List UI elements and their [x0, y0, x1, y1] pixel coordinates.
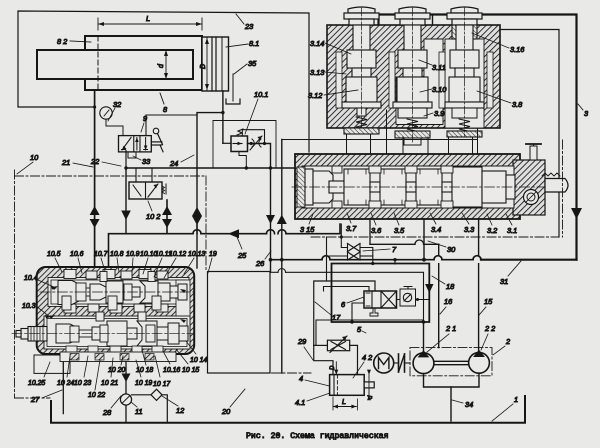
- svg-text:11: 11: [135, 407, 143, 416]
- svg-text:L: L: [146, 14, 150, 23]
- svg-text:10.8: 10.8: [110, 251, 124, 258]
- drain slots in block 3: [336, 52, 493, 108]
- label 16: [440, 297, 453, 314]
- svg-text:12: 12: [176, 406, 184, 415]
- label 2.1: [427, 324, 456, 352]
- label 3.8: [477, 91, 523, 109]
- label 34: [452, 400, 473, 409]
- coupling: [394, 354, 410, 372]
- valve 6: [364, 291, 397, 316]
- label 10.15: [176, 349, 199, 374]
- svg-text:3: 3: [584, 109, 589, 118]
- label 3.15: [300, 214, 315, 234]
- distributor spool lands: [297, 167, 515, 207]
- svg-text:2: 2: [505, 337, 510, 346]
- label 2: [493, 337, 510, 355]
- upper bore block 10: [48, 278, 190, 346]
- svg-text:3.7: 3.7: [346, 224, 357, 233]
- svg-text:3.13: 3.13: [310, 68, 325, 77]
- svg-text:4 2: 4 2: [362, 353, 372, 362]
- check valve 11: [120, 394, 131, 423]
- flow arrows on wire 167: [162, 206, 172, 228]
- svg-text:26: 26: [255, 259, 265, 268]
- label 3.3: [462, 213, 475, 234]
- distributor 3 body: [295, 154, 545, 219]
- label 4.1: [295, 393, 330, 407]
- svg-text:18: 18: [446, 282, 455, 291]
- svg-text:16: 16: [444, 297, 453, 306]
- label 12: [162, 396, 184, 415]
- label 10.16: [163, 351, 180, 374]
- pump 2.2: [469, 350, 490, 373]
- label 29: [297, 337, 313, 360]
- wire return manifold y259.7: [269, 256, 577, 262]
- label 10.22: [88, 360, 105, 399]
- svg-text:3.11: 3.11: [432, 63, 446, 72]
- svg-text:Рис. 20. Схема гидравлическая: Рис. 20. Схема гидравлическая: [246, 432, 389, 441]
- pump 2.1: [413, 350, 434, 373]
- splined input shaft 10.4: [16, 327, 47, 342]
- svg-text:10 2: 10 2: [146, 212, 160, 221]
- wire throttle to cylinder 4: [314, 345, 358, 374]
- wire 10.1 inlet: [223, 142, 231, 144]
- svg-text:10.25: 10.25: [28, 380, 45, 387]
- label 10.13: [184, 251, 205, 274]
- svg-text:10.4: 10.4: [24, 275, 38, 282]
- filter 12: [151, 389, 162, 400]
- throttle 5: [327, 336, 349, 353]
- relief 10.1 bypass loop: [242, 130, 266, 145]
- svg-text:7: 7: [392, 245, 397, 254]
- wires valves to distributor: [347, 110, 478, 154]
- chain boundary assembly 10: [15, 170, 207, 398]
- label 23: [236, 14, 254, 31]
- gauge 32: [100, 107, 123, 136]
- label 10.6: [70, 251, 84, 273]
- svg-text:3.16: 3.16: [510, 45, 525, 54]
- label 1: [492, 395, 518, 421]
- svg-text:20: 20: [221, 407, 231, 416]
- label 10.9: [126, 251, 140, 273]
- wire inner frame right: [500, 30, 559, 238]
- wire 3 top feed: [379, 15, 577, 260]
- svg-text:10 23: 10 23: [74, 380, 91, 387]
- label 25: [237, 237, 247, 260]
- label 3.16: [472, 33, 525, 54]
- label 10.24: [57, 356, 74, 387]
- svg-text:3.5: 3.5: [394, 226, 405, 235]
- wire return line y233.7: [109, 224, 341, 268]
- wire spool port to junction 424: [423, 219, 425, 260]
- svg-text:10.1: 10.1: [254, 90, 268, 99]
- svg-text:10.16: 10.16: [163, 367, 180, 374]
- label 3.13: [310, 68, 346, 77]
- svg-text:10 20: 10 20: [108, 367, 125, 374]
- label 21: [61, 158, 93, 167]
- coupler 7 upper branch: [340, 224, 373, 264]
- svg-text:8.1: 8.1: [249, 39, 259, 48]
- poppet valve 3.9 cartridge 2: [393, 7, 432, 145]
- svg-text:19: 19: [209, 251, 217, 258]
- label 8.1: [226, 39, 259, 48]
- label 10.7: [94, 251, 109, 271]
- svg-text:10.9: 10.9: [126, 251, 140, 258]
- label 8: [160, 93, 168, 114]
- label 10: [17, 153, 39, 174]
- lower bore block 10: [44, 316, 190, 353]
- label 3.6: [371, 213, 382, 235]
- svg-text:D: D: [200, 64, 207, 69]
- svg-text:32: 32: [113, 100, 121, 109]
- distributor seat plugs: [332, 166, 453, 208]
- wire 10.2 to return: [166, 200, 168, 234]
- coupler 7 lower branch: [327, 237, 373, 281]
- label 28: [102, 396, 121, 417]
- svg-text:22: 22: [90, 157, 99, 166]
- wire 281 return riser: [277, 140, 478, 374]
- svg-text:33: 33: [142, 157, 151, 166]
- svg-text:25: 25: [237, 251, 247, 260]
- label 10.19: [135, 360, 152, 387]
- caption: [246, 432, 389, 441]
- svg-text:30: 30: [447, 245, 456, 254]
- svg-text:10: 10: [30, 153, 39, 162]
- valve 10.2: [129, 168, 166, 199]
- svg-text:10 22: 10 22: [88, 392, 105, 399]
- label 10.8: [110, 251, 124, 272]
- svg-text:10 24: 10 24: [57, 380, 74, 387]
- label 27: [30, 390, 62, 404]
- flow arrow on return line: [228, 229, 239, 238]
- tank symbol below valve 9: [126, 151, 136, 169]
- wire node A main pressure line y168: [124, 166, 295, 169]
- label 3.10: [420, 85, 447, 94]
- label 3.11: [419, 60, 446, 72]
- drain loop 10.1: [239, 152, 246, 169]
- label 10.1: [245, 90, 268, 134]
- poppet valve 3.12 cartridge 1: [342, 7, 381, 134]
- wire cylinder right port: [197, 91, 225, 234]
- wire check valve 11 branch: [122, 354, 131, 394]
- throttle next to 10.1: [249, 136, 264, 150]
- svg-text:1: 1: [514, 395, 518, 404]
- block bottom plate: [60, 352, 176, 362]
- label 10.14: [186, 341, 207, 364]
- wire filter 12 branch: [132, 395, 168, 423]
- svg-text:10 18: 10 18: [136, 367, 153, 374]
- label 7: [363, 245, 397, 254]
- svg-text:3.14: 3.14: [310, 39, 324, 48]
- upper spool block 10: [58, 281, 187, 305]
- label 4: [299, 374, 330, 386]
- svg-text:5: 5: [357, 325, 362, 334]
- svg-text:10.12: 10.12: [169, 251, 186, 258]
- wire pump 2.1 suction riser: [423, 322, 425, 353]
- svg-text:2 2: 2 2: [484, 324, 495, 333]
- svg-text:3.8: 3.8: [512, 100, 523, 109]
- label 3.9: [424, 109, 444, 118]
- svg-text:24: 24: [169, 159, 178, 168]
- label 10.17: [153, 356, 171, 388]
- svg-text:28: 28: [102, 408, 112, 417]
- label 33: [133, 156, 151, 166]
- label 10.21: [101, 358, 118, 387]
- label 10.3: [22, 303, 50, 319]
- lower spool block 10: [56, 321, 188, 346]
- svg-text:L: L: [342, 399, 346, 406]
- dimension d: [158, 50, 168, 79]
- svg-text:23: 23: [244, 22, 254, 31]
- svg-text:10.5: 10.5: [47, 251, 61, 258]
- svg-text:9: 9: [143, 114, 147, 123]
- motor M: [374, 353, 394, 373]
- label 4.2: [353, 353, 372, 378]
- svg-text:15: 15: [484, 297, 493, 306]
- svg-text:34: 34: [465, 400, 473, 409]
- label 31: [500, 261, 521, 286]
- chain boundary bottom: [208, 372, 312, 374]
- tank 1 outline: [51, 396, 525, 423]
- svg-text:3.3: 3.3: [464, 225, 475, 234]
- distributor centerline: [292, 186, 548, 188]
- wire 10.1 outlet down: [248, 144, 271, 272]
- cylinder 8: [37, 36, 229, 91]
- label 22: [90, 157, 121, 166]
- label 32: [108, 100, 121, 121]
- label 9: [141, 114, 147, 132]
- label 26: [255, 251, 271, 268]
- flow arrow on wire 3: [571, 208, 582, 219]
- upper spool centerline: [40, 291, 193, 293]
- box 19: [208, 272, 271, 374]
- svg-text:3.6: 3.6: [371, 226, 382, 235]
- dimension L cylinder 4: [333, 397, 358, 410]
- internal leader arrows block 10: [49, 286, 186, 323]
- valve 9: [119, 128, 164, 152]
- svg-text:10 17: 10 17: [153, 381, 171, 388]
- svg-text:3.1: 3.1: [507, 226, 517, 235]
- label 10.5: [47, 251, 62, 272]
- svg-text:3 15: 3 15: [300, 225, 315, 234]
- svg-text:10.7: 10.7: [94, 251, 109, 258]
- svg-text:21: 21: [61, 158, 70, 167]
- cylinder 4: [330, 375, 375, 396]
- label 2.2: [481, 324, 495, 350]
- chain boundary pump assembly 2: [410, 348, 492, 376]
- label 10.25: [28, 362, 50, 387]
- wire 23 frame top-left: [18, 11, 309, 152]
- dimension D cylinder 4: [330, 362, 338, 375]
- wire distributor port 3.6 to pump line: [370, 219, 439, 244]
- flow arrow on wire 270: [266, 215, 275, 224]
- label 17: [315, 302, 341, 322]
- wire 27 drain: [62, 354, 64, 414]
- distributor adjuster bolt: [526, 144, 541, 160]
- distributor output shaft: [542, 173, 568, 192]
- label 3.12: [308, 90, 358, 100]
- wire valve 6 left loop: [352, 303, 364, 322]
- svg-text:3.9: 3.9: [434, 109, 444, 118]
- upper port notches: [64, 270, 168, 314]
- label 11: [131, 402, 143, 416]
- label 10.2: [146, 201, 160, 221]
- wire cylinder left port: [94, 90, 96, 268]
- svg-text:31: 31: [500, 277, 508, 286]
- svg-text:10.3: 10.3: [22, 303, 36, 310]
- svg-text:8: 8: [163, 105, 168, 114]
- label 8.2: [57, 37, 91, 46]
- label 3.1: [506, 214, 517, 235]
- valve block assembly 3 body: [327, 25, 500, 128]
- label 3.5: [394, 213, 405, 235]
- wire valve 9 right port: [146, 115, 197, 136]
- pump shaft: [434, 361, 469, 364]
- label 3: [578, 104, 589, 118]
- dimension L: [98, 14, 202, 30]
- box 16 inner boundary: [271, 258, 424, 345]
- svg-text:3.10: 3.10: [432, 85, 447, 94]
- label 10.23: [74, 356, 91, 387]
- svg-text:4.1: 4.1: [295, 398, 305, 407]
- dimension d cylinder 4: [367, 370, 374, 401]
- wire pump suction manifold 34: [424, 373, 480, 421]
- label 10.18: [136, 350, 153, 374]
- label 3.7: [346, 213, 357, 233]
- flow arrows on wire 197: [192, 207, 202, 268]
- svg-text:29: 29: [297, 337, 306, 346]
- relief valve 10.1 enclosure: [213, 121, 276, 169]
- pump block assembly 10 body: [37, 267, 195, 354]
- label 10.11: [154, 251, 172, 277]
- svg-text:D: D: [330, 365, 336, 370]
- label 10.20: [108, 356, 125, 374]
- svg-text:8 2: 8 2: [57, 37, 67, 46]
- poppet valve 3.8 cartridge 3: [445, 7, 484, 137]
- flow arrows on left port wire: [90, 206, 100, 228]
- label 3.2: [487, 214, 497, 235]
- svg-text:4: 4: [299, 374, 303, 383]
- svg-text:2 1: 2 1: [445, 324, 456, 333]
- label 24: [169, 155, 194, 168]
- relief valve 10.1: [231, 129, 248, 152]
- wire spool drain 478 to pump 2.2: [478, 219, 480, 352]
- wire stub cap2-cap3: [432, 15, 434, 26]
- label 15: [479, 297, 493, 315]
- svg-text:10.6: 10.6: [70, 251, 84, 258]
- dimension D: [200, 38, 209, 90]
- svg-text:3.2: 3.2: [487, 226, 497, 235]
- svg-text:3.12: 3.12: [308, 91, 322, 100]
- svg-text:10 21: 10 21: [101, 380, 118, 387]
- svg-text:10 14: 10 14: [190, 357, 207, 364]
- svg-text:3.4: 3.4: [431, 225, 441, 234]
- svg-text:35: 35: [248, 59, 257, 68]
- label 35 with breather bracket: [226, 59, 257, 104]
- svg-text:10.13: 10.13: [188, 251, 205, 258]
- wire 126 to return: [121, 168, 131, 234]
- lower spool centerline: [12, 333, 193, 335]
- lower spool extra rings: [70, 312, 155, 342]
- label 10.4: [24, 275, 56, 290]
- svg-text:6: 6: [341, 300, 346, 309]
- label 10.12: [164, 251, 186, 278]
- wire spool port 438 to pump enclosure: [438, 244, 440, 347]
- label 18: [432, 276, 455, 291]
- sub-housing 10.25: [34, 355, 70, 373]
- label 5: [357, 325, 366, 334]
- wire loop 18 circuit: [332, 264, 430, 324]
- box 17: [314, 281, 375, 345]
- chain boundary assembly 3: [311, 140, 563, 237]
- svg-text:10 19: 10 19: [135, 380, 152, 387]
- svg-text:27: 27: [30, 395, 40, 404]
- svg-text:17: 17: [332, 313, 341, 322]
- flow arrow on loop right edge: [425, 284, 433, 293]
- label 6: [341, 297, 364, 309]
- label 30: [428, 241, 456, 254]
- label 3.4: [430, 213, 441, 234]
- label 3.14: [310, 39, 351, 54]
- label 19: [208, 251, 217, 273]
- distributor bearing: [524, 190, 539, 205]
- label 10.10: [140, 251, 157, 274]
- upper spool extra rings: [62, 272, 161, 311]
- svg-text:10 15: 10 15: [182, 367, 199, 374]
- label 20: [221, 389, 245, 416]
- check valve 11a: [397, 287, 430, 307]
